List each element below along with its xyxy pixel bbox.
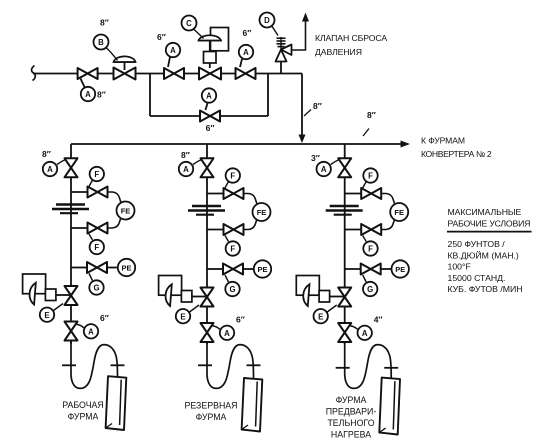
svg-text:8″: 8″ — [181, 150, 190, 160]
control valve E actuator diaphragm branch 2 — [166, 284, 172, 306]
hose coupling tick left branch 2 — [198, 364, 212, 366]
relief valve body (angle valve) — [276, 45, 292, 62]
isolation valve A 8&#8243; branch 2 — [201, 158, 214, 177]
block valve (PE) branch 1 — [87, 262, 107, 273]
leader to bubble A — [211, 326, 220, 330]
leader to bubble F — [89, 234, 93, 240]
wire side branch to PE — [345, 268, 361, 270]
flow element bubble FE branch 1 — [117, 202, 135, 220]
leader to bubble G — [89, 274, 93, 281]
label 8" with leader — [304, 110, 311, 117]
orifice plate branch 2 — [192, 205, 221, 207]
svg-text:A: A — [183, 165, 189, 174]
leader to bubble F — [89, 180, 93, 187]
wire bypass right riser — [267, 74, 269, 117]
svg-text:PE: PE — [257, 265, 267, 274]
pressure element bubble PE branch 1 — [118, 259, 135, 276]
control valve E body branch 2 — [201, 288, 214, 307]
instrument bubble A branch 2 — [179, 162, 193, 176]
wire to flow element — [381, 220, 394, 230]
wire positioner to valve — [192, 296, 207, 298]
svg-text:C: C — [186, 19, 192, 28]
vent arrow — [302, 13, 309, 22]
svg-text:F: F — [94, 170, 99, 179]
svg-text:G: G — [229, 285, 235, 294]
wire positioner to valve — [56, 294, 71, 296]
leader to bubble F — [225, 236, 229, 242]
svg-text:15000 СТАНД.: 15000 СТАНД. — [448, 273, 506, 283]
instrument bubble G branch 3 — [363, 282, 377, 296]
wire relief valve vent outlet — [292, 20, 306, 50]
svg-text:ПРЕДВАРИ-: ПРЕДВАРИ- — [326, 407, 377, 417]
svg-text:PE: PE — [395, 265, 405, 274]
leader to bubble A — [57, 160, 66, 165]
control valve E actuator diaphragm branch 1 — [30, 283, 36, 305]
wire branch 2 vertical — [206, 144, 208, 344]
wire branch 1 vertical — [70, 144, 72, 344]
instrument bubble G branch 1 — [89, 280, 103, 294]
wire side branch upper (to valve F) — [207, 193, 224, 195]
svg-text:6″: 6″ — [157, 32, 166, 42]
leader to bubble A — [75, 324, 84, 328]
wire side branch to PE — [207, 268, 223, 270]
svg-text:F: F — [230, 172, 235, 181]
wire riser to relief valve — [280, 62, 282, 74]
leader to bubble A — [206, 103, 208, 110]
flexible hose branch 3 — [345, 341, 392, 388]
wire main supply line — [33, 73, 302, 75]
wire to flow element — [108, 218, 121, 228]
instrument bubble A — [166, 43, 180, 57]
svg-text:РАБОЧИЕ УСЛОВИЯ: РАБОЧИЕ УСЛОВИЯ — [448, 219, 531, 229]
leader to bubble E — [327, 305, 337, 312]
svg-text:ФУРМА: ФУРМА — [336, 395, 367, 405]
pressure element bubble PE branch 2 — [254, 260, 271, 277]
control valve C sensing loop rectangle — [211, 28, 229, 51]
svg-text:FE: FE — [121, 207, 131, 216]
svg-text:A: A — [47, 165, 53, 174]
leader to bubble A — [193, 160, 202, 165]
instrument bubble A — [239, 45, 253, 59]
wire to flow element — [108, 192, 121, 202]
svg-text:КВ.ДЮЙМ (МАН.): КВ.ДЮЙМ (МАН.) — [448, 250, 519, 261]
leader to bubble A — [168, 57, 170, 67]
wire bypass left drop — [149, 74, 151, 117]
gate valve A 6 inch (right of control valve C) — [236, 68, 256, 79]
svg-text:8″: 8″ — [313, 101, 322, 111]
control valve E signal loop rectangle branch 1 — [23, 274, 46, 294]
block valve (F lower) branch 1 — [88, 223, 108, 234]
svg-text:ТЕЛЬНОГО: ТЕЛЬНОГО — [327, 418, 374, 428]
svg-text:ДАВЛЕНИЯ: ДАВЛЕНИЯ — [315, 47, 362, 57]
tuyere lance branch 1 — [106, 376, 127, 430]
wire side branch to PE — [71, 267, 87, 269]
wire branch 3 vertical — [344, 144, 346, 344]
instrument bubble A branch 3 — [317, 162, 331, 176]
relief valve spring — [280, 37, 282, 50]
instrument bubble F upper branch 2 — [226, 168, 240, 182]
control valve E body branch 1 — [65, 286, 78, 305]
hose coupling tick right branch 3 — [384, 367, 398, 369]
control valve C stem — [209, 41, 211, 52]
hose coupling tick right branch 2 — [247, 364, 261, 366]
instrument bubble A branch 1 — [43, 162, 57, 176]
block valve (PE) branch 2 — [223, 264, 243, 275]
instrument bubble B — [94, 35, 109, 50]
lance inner shading line — [393, 381, 395, 429]
wire side branch upper (to valve F) — [71, 191, 88, 193]
block valve (PE) branch 3 — [361, 264, 381, 275]
svg-text:8″: 8″ — [100, 18, 109, 28]
control valve C positioner box — [204, 52, 217, 64]
hose coupling tick left branch 1 — [62, 364, 76, 366]
svg-text:A: A — [206, 92, 212, 101]
instrument bubble E branch 1 — [40, 308, 54, 322]
svg-text:F: F — [230, 245, 235, 254]
wire to flow element — [244, 194, 257, 204]
svg-text:МАКСИМАЛЬНЫЕ: МАКСИМАЛЬНЫЕ — [448, 207, 522, 217]
label 8" with leader — [363, 129, 369, 137]
block valve (F lower) branch 2 — [224, 224, 244, 235]
svg-text:FE: FE — [257, 208, 267, 217]
instrument bubble A lower branch 1 — [84, 324, 98, 338]
svg-text:A: A — [85, 90, 91, 99]
orifice plate branch 3 — [330, 205, 359, 207]
tuyere lance branch 3 — [379, 378, 400, 435]
wire valve to PE bubble — [107, 267, 118, 269]
instrument bubble A — [81, 87, 95, 101]
instrument bubble F lower branch 1 — [90, 240, 104, 254]
leader to bubble E — [190, 305, 200, 312]
svg-text:A: A — [243, 48, 249, 57]
lance inner shading line — [256, 382, 258, 427]
control valve E positioner box branch 3 — [319, 291, 330, 303]
instrument bubble D — [260, 13, 275, 28]
svg-text:B: B — [98, 38, 104, 47]
svg-text:3″: 3″ — [311, 153, 320, 163]
gate valve A 6 inch (left of control valve C) — [164, 68, 184, 79]
wire to flow element — [381, 194, 394, 204]
leader to bubble F — [363, 182, 367, 189]
svg-text:КЛАПАН СБРОСА: КЛАПАН СБРОСА — [315, 33, 387, 43]
wire side branch upper (to valve F) — [345, 193, 362, 195]
svg-text:6″: 6″ — [100, 313, 109, 323]
flow arrow down — [299, 135, 306, 144]
leader to bubble B — [106, 48, 118, 61]
control valve E signal loop rectangle branch 2 — [159, 276, 182, 296]
instrument bubble F lower branch 2 — [226, 241, 240, 255]
leader to bubble E — [54, 304, 64, 311]
control valve B body — [114, 68, 136, 80]
instrument bubble A lower branch 3 — [358, 326, 372, 340]
svg-text:8″: 8″ — [42, 149, 51, 159]
instrument bubble A — [202, 88, 216, 102]
svg-text:A: A — [362, 329, 368, 338]
svg-text:К ФУРМАМ: К ФУРМАМ — [421, 136, 465, 146]
lance bottom diagonal — [106, 424, 112, 429]
svg-text:6″: 6″ — [243, 28, 252, 38]
wire positioner to valve — [330, 296, 345, 298]
svg-text:F: F — [368, 172, 373, 181]
svg-text:250 ФУНТОВ /: 250 ФУНТОВ / — [448, 239, 506, 249]
control valve E positioner box branch 1 — [45, 289, 56, 301]
svg-text:E: E — [318, 312, 323, 321]
control valve C body — [199, 68, 221, 80]
svg-text:100°F: 100°F — [448, 262, 471, 272]
block valve (F upper) branch 3 — [361, 188, 381, 199]
pressure element bubble PE branch 3 — [392, 260, 409, 277]
leader to bubble A — [331, 160, 340, 165]
instrument bubble F upper branch 3 — [363, 168, 377, 182]
lance bottom diagonal — [379, 428, 385, 433]
svg-text:F: F — [94, 243, 99, 252]
wire bypass bottom run — [150, 115, 268, 117]
svg-text:PE: PE — [121, 264, 131, 273]
bypass gate valve A 6 inch — [200, 111, 220, 122]
pipe break symbol — [32, 66, 36, 81]
leader to bubble A — [349, 326, 358, 330]
flow element bubble FE branch 3 — [390, 203, 408, 221]
svg-text:E: E — [180, 312, 185, 321]
gate valve A 8 inch (main inlet) — [78, 68, 98, 79]
svg-text:FE: FE — [394, 208, 404, 217]
svg-text:НАГРЕВА: НАГРЕВА — [331, 430, 371, 440]
isolation valve A 4&#8243; branch 3 — [338, 323, 351, 342]
svg-text:РЕЗЕРВНАЯ: РЕЗЕРВНАЯ — [184, 401, 237, 411]
control valve E actuator diaphragm branch 3 — [303, 284, 309, 306]
leader to bubble G — [225, 275, 229, 282]
instrument bubble F upper branch 1 — [90, 167, 104, 181]
svg-text:E: E — [44, 311, 49, 320]
block valve (F lower) branch 3 — [361, 224, 381, 235]
wire drop from main line to distribution header — [301, 74, 303, 137]
instrument bubble F lower branch 3 — [363, 241, 377, 255]
leader to bubble D — [272, 26, 279, 36]
control valve E positioner box branch 2 — [181, 291, 192, 303]
svg-text:КОНВЕРТЕРА № 2: КОНВЕРТЕРА № 2 — [421, 149, 492, 159]
svg-text:A: A — [321, 165, 327, 174]
leader to bubble F — [363, 236, 367, 242]
control valve B actuator dome — [114, 61, 136, 63]
isolation valve A 6&#8243; branch 2 — [201, 323, 214, 342]
leader to bubble F — [225, 182, 229, 189]
svg-text:F: F — [368, 245, 373, 254]
flow element bubble FE branch 2 — [253, 203, 271, 221]
control valve B stem — [124, 62, 126, 70]
svg-text:ФУРМА: ФУРМА — [196, 412, 227, 422]
instrument bubble G branch 2 — [225, 282, 239, 296]
wire side branch lower (to valve F) — [71, 227, 88, 229]
block valve (F upper) branch 1 — [88, 187, 108, 198]
leader to bubble C — [194, 30, 204, 39]
isolation valve A 8&#8243; branch 1 — [65, 158, 78, 177]
instrument bubble A lower branch 2 — [220, 326, 234, 340]
svg-text:8″: 8″ — [367, 110, 376, 120]
svg-text:G: G — [93, 284, 99, 293]
wire valve to PE bubble — [243, 268, 254, 270]
note block: maximum operating conditions — [447, 207, 532, 294]
svg-text:A: A — [170, 46, 176, 55]
wire to flow element — [244, 220, 257, 230]
leader to bubble A — [81, 79, 85, 88]
orifice plate branch 1 — [56, 203, 85, 205]
svg-text:6″: 6″ — [236, 315, 245, 325]
hose coupling tick left branch 3 — [336, 367, 350, 369]
svg-text:A: A — [224, 329, 230, 338]
svg-text:G: G — [367, 285, 373, 294]
isolation valve A 6&#8243; branch 1 — [65, 322, 78, 341]
flexible hose branch 2 — [207, 341, 254, 388]
block valve (F upper) branch 2 — [224, 188, 244, 199]
header flow arrow right — [401, 141, 411, 148]
svg-text:ФУРМА: ФУРМА — [68, 412, 99, 422]
instrument bubble E branch 2 — [176, 309, 190, 323]
svg-text:4″: 4″ — [374, 315, 383, 325]
svg-text:6″: 6″ — [206, 123, 215, 133]
svg-text:A: A — [88, 328, 94, 337]
wire side branch lower (to valve F) — [345, 229, 362, 231]
control valve C actuator dome — [199, 40, 222, 42]
hose coupling tick right branch 1 — [111, 364, 125, 366]
isolation valve A 3&#8243; branch 3 — [338, 158, 351, 177]
lance bottom diagonal — [242, 425, 248, 430]
tuyere lance branch 2 — [242, 378, 263, 432]
wire side branch lower (to valve F) — [207, 229, 224, 231]
svg-text:КУБ. ФУТОВ /МИН: КУБ. ФУТОВ /МИН — [448, 284, 523, 294]
wire distribution header — [71, 143, 403, 145]
leader to bubble G — [363, 275, 367, 282]
instrument bubble C — [182, 16, 197, 31]
instrument bubble E branch 3 — [314, 309, 328, 323]
leader to bubble A — [240, 59, 242, 67]
svg-text:8″: 8″ — [97, 90, 106, 100]
control valve E signal loop rectangle branch 3 — [296, 276, 319, 296]
control valve E body branch 3 — [338, 288, 351, 307]
svg-text:D: D — [264, 16, 270, 25]
flexible hose branch 1 — [71, 341, 118, 388]
svg-text:РАБОЧАЯ: РАБОЧАЯ — [62, 400, 104, 410]
wire valve to PE bubble — [381, 268, 392, 270]
lance inner shading line — [120, 380, 122, 425]
